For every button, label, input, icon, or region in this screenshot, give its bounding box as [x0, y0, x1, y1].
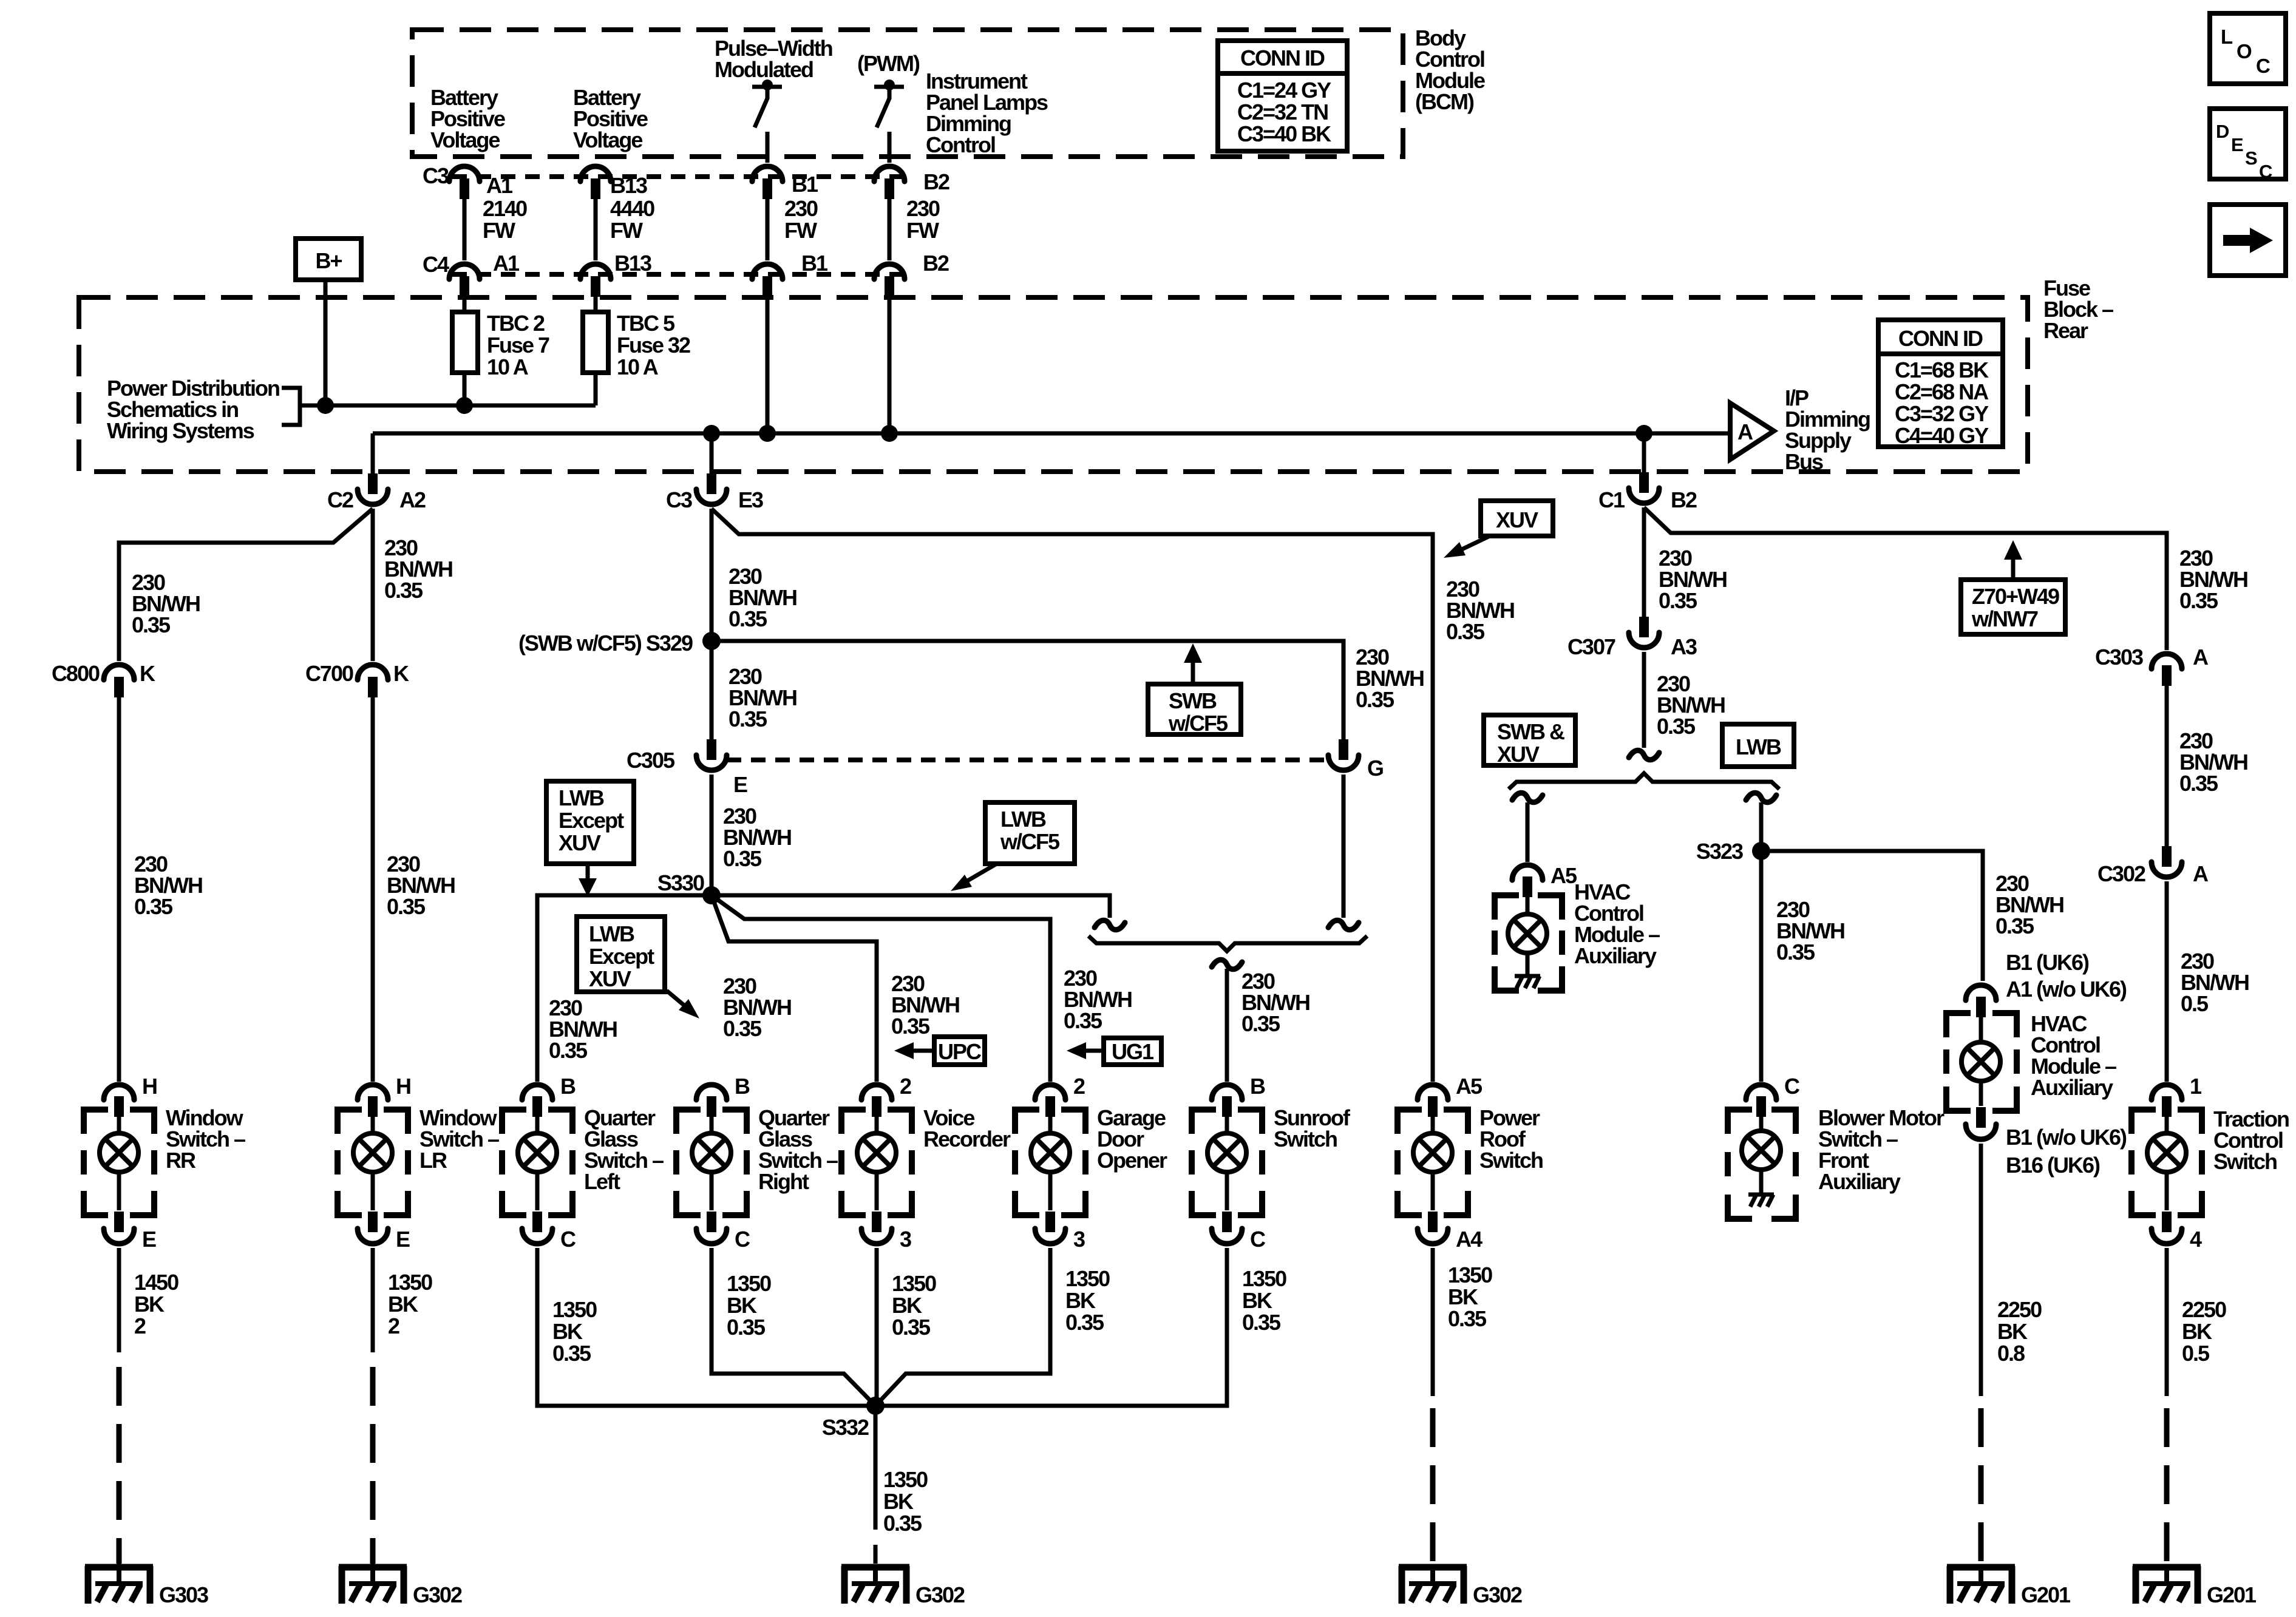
connector A4 (power roof switch) [1418, 1212, 1448, 1244]
svg-text:TBC 5: TBC 5 [617, 311, 675, 336]
junction dot S330 [702, 886, 721, 904]
svg-text:BK: BK [2182, 1319, 2212, 1344]
connector C800/K [104, 665, 134, 697]
dashed wire segment to G302 center [874, 1545, 878, 1564]
wire sunroof down to bottom rail [875, 1248, 1227, 1406]
connector G [1328, 739, 1359, 770]
connector C3/E3 [696, 473, 727, 504]
garage door opener box [1015, 1110, 1085, 1215]
svg-text:A5: A5 [1550, 863, 1577, 888]
svg-text:CONN ID: CONN ID [1898, 326, 1983, 351]
connector C305/E [696, 739, 727, 770]
svg-text:4: 4 [2190, 1227, 2202, 1252]
wire G down to sunroof merge [1342, 775, 1346, 918]
svg-text:0.35: 0.35 [729, 606, 767, 631]
wire B13 [594, 198, 598, 260]
svg-text:S323: S323 [1696, 839, 1743, 864]
svg-text:Wiring Systems: Wiring Systems [107, 418, 254, 443]
dashed wire HVAC right to ground [1978, 1408, 1984, 1564]
connector H (window switch RR) [104, 1085, 134, 1117]
svg-text:SWB &: SWB & [1497, 719, 1564, 744]
wire S330 to garage door opener [712, 895, 1050, 1082]
svg-text:0.35: 0.35 [1064, 1008, 1102, 1033]
junction dot TBC2 [456, 397, 473, 414]
svg-text:Left: Left [584, 1169, 620, 1194]
UPC box with arrow [894, 1037, 985, 1065]
svg-text:Voltage: Voltage [573, 127, 642, 152]
svg-text:LR: LR [419, 1148, 447, 1173]
svg-text:(PWM): (PWM) [857, 51, 920, 76]
svg-text:B: B [735, 1074, 750, 1099]
svg-text:K: K [140, 661, 155, 686]
svg-text:BK: BK [388, 1292, 418, 1317]
svg-text:B1 (w/o UK6): B1 (w/o UK6) [2006, 1125, 2127, 1150]
svg-text:A1 (w/o UK6): A1 (w/o UK6) [2006, 977, 2127, 1002]
svg-text:H: H [142, 1074, 157, 1099]
arrow up from Z70 box [2004, 540, 2022, 580]
svg-text:C800: C800 [52, 661, 100, 686]
wire C2 down to C700 [371, 509, 375, 661]
svg-text:0.35: 0.35 [723, 846, 762, 871]
svg-text:C: C [2259, 161, 2272, 182]
arrow from XUV box to wire corner [1444, 537, 1489, 558]
svg-text:0.35: 0.35 [1446, 619, 1485, 644]
svg-text:w/CF5: w/CF5 [1000, 829, 1060, 854]
XUV option box [1481, 501, 1553, 536]
Z70+W49 w/NW7 option box [1961, 580, 2065, 634]
svg-text:Recorder: Recorder [923, 1127, 1011, 1151]
quarter glass switch right box [676, 1110, 747, 1215]
svg-text:C3=32 GY: C3=32 GY [1895, 401, 1989, 426]
svg-text:SWB: SWB [1169, 688, 1217, 713]
lamp window switch LR [353, 1117, 392, 1210]
lamp traction control switch [2147, 1117, 2186, 1210]
svg-text:C: C [1250, 1227, 1266, 1252]
wire B2 down to bus [888, 295, 892, 433]
ground G302 (left) [339, 1551, 407, 1604]
wire B1 down to bus [766, 295, 770, 433]
svg-text:D: D [2216, 121, 2229, 142]
lamp quarter glass right [692, 1117, 731, 1210]
connector B1(w/o UK6)/B16(UK6) HVAC right bottom [1966, 1107, 1996, 1139]
ground G201 (HVAC right) [1947, 1566, 2015, 1604]
lamp sunroof switch [1207, 1117, 1246, 1210]
fuse TBC2 [452, 297, 478, 405]
window switch LR box [338, 1110, 408, 1215]
connector B (sunroof switch) [1212, 1085, 1242, 1117]
svg-text:C302: C302 [2097, 861, 2145, 886]
ground G302 (center) [841, 1566, 909, 1604]
svg-text:C303: C303 [2095, 645, 2143, 670]
wire diagonal C3/E3 to PRS feed [712, 509, 1433, 1082]
svg-text:E: E [142, 1227, 156, 1252]
svg-text:C307: C307 [1567, 634, 1615, 659]
wire GDO down to S332 [875, 1248, 1050, 1406]
svg-text:CONN ID: CONN ID [1240, 46, 1325, 70]
arrow from LWB w/CF5 box to S330 line [951, 864, 996, 891]
connector E (window switch RR) [104, 1212, 134, 1244]
connector C3/B13 [580, 166, 611, 199]
wire B+ down [324, 278, 328, 405]
connector C3/A1 [449, 166, 480, 199]
DESC box [2210, 109, 2286, 182]
LWB Except XUV option box (upper) [546, 781, 634, 864]
svg-text:w/NW7: w/NW7 [1971, 606, 2038, 631]
svg-text:10 A: 10 A [487, 354, 529, 379]
svg-text:0.35: 0.35 [1776, 940, 1815, 964]
svg-text:B2: B2 [1671, 487, 1697, 512]
wire C800 down [117, 697, 121, 1082]
lamp HVAC aux right [1961, 1017, 2000, 1106]
svg-text:XUV: XUV [1496, 507, 1538, 532]
svg-text:A2: A2 [399, 487, 426, 512]
svg-text:0.35: 0.35 [892, 1315, 931, 1340]
svg-text:O: O [2237, 40, 2252, 63]
wire HVAC right down [1979, 1144, 1983, 1396]
svg-text:BK: BK [883, 1489, 914, 1514]
svg-text:C3: C3 [423, 163, 449, 188]
junction dot S323 [1752, 842, 1770, 860]
svg-text:0.35: 0.35 [134, 894, 173, 919]
svg-text:2140: 2140 [483, 196, 527, 221]
wire B1 [766, 198, 770, 260]
svg-text:G302: G302 [413, 1582, 462, 1607]
svg-text:E: E [2231, 134, 2243, 155]
svg-text:3: 3 [900, 1227, 911, 1252]
svg-text:Except: Except [589, 944, 654, 969]
svg-text:C1: C1 [1598, 487, 1625, 512]
window switch RR box [84, 1110, 154, 1215]
svg-text:C2: C2 [327, 487, 353, 512]
bus corner down to C2 [371, 433, 375, 475]
svg-text:BK: BK [727, 1293, 757, 1318]
wire diagonal C1/B2 to far right column [1644, 507, 2167, 650]
svg-text:Fuse 7: Fuse 7 [487, 333, 549, 358]
lamp garage door opener [1031, 1117, 1070, 1210]
HVAC control module auxiliary box (left) [1495, 895, 1562, 991]
svg-text:10 A: 10 A [617, 354, 659, 379]
wire C307 down to split [1642, 652, 1646, 748]
svg-text:S: S [2245, 147, 2257, 169]
power roof switch box [1398, 1110, 1468, 1215]
connector C700/K [358, 665, 388, 697]
svg-text:0.35: 0.35 [387, 894, 426, 919]
svg-text:1350: 1350 [552, 1297, 597, 1322]
svg-text:0.35: 0.35 [1065, 1310, 1104, 1335]
svg-text:BK: BK [1448, 1284, 1478, 1309]
wire C3/E3 down to S329 [710, 509, 714, 641]
svg-text:H: H [396, 1074, 410, 1099]
SWB w/CF5 option box [1148, 684, 1241, 736]
lamp blower motor [1742, 1117, 1781, 1170]
svg-text:C: C [2256, 55, 2270, 77]
svg-text:1350: 1350 [727, 1271, 771, 1296]
svg-text:C2=68 NA: C2=68 NA [1895, 379, 1989, 404]
arrow box [2210, 205, 2286, 276]
wire S330 to voice recorder [712, 895, 877, 1082]
svg-text:0.35: 0.35 [727, 1315, 766, 1340]
junction dot C1B2 tap [1635, 425, 1652, 442]
svg-text:C305: C305 [627, 748, 675, 773]
svg-text:Voltage: Voltage [430, 127, 500, 152]
triangle A: I/P Dimming Supply Bus [1730, 403, 1774, 459]
svg-text:2: 2 [388, 1314, 399, 1338]
wire S329 right to G branch [712, 641, 1343, 740]
svg-text:L: L [2221, 25, 2233, 48]
svg-text:Switch: Switch [1274, 1127, 1337, 1151]
LWB option box [1722, 724, 1794, 767]
wire below RR [117, 1248, 121, 1352]
merge bracket (LWB w/CF5 + SWB w/CF5 options) [1089, 936, 1367, 951]
wire tap down to C1/B2 [1642, 433, 1646, 473]
svg-text:0.35: 0.35 [1657, 714, 1696, 739]
svg-text:Switch: Switch [2213, 1149, 2277, 1174]
svg-text:B13: B13 [614, 251, 651, 276]
wire C303 down to C302 [2165, 686, 2169, 856]
junction dot C3E3 tap [703, 425, 720, 442]
connector 2 (garage door opener) [1035, 1085, 1065, 1117]
svg-text:S332: S332 [822, 1415, 869, 1440]
svg-text:C: C [735, 1227, 750, 1252]
svg-text:BK: BK [552, 1319, 583, 1344]
wire S323 down to blower [1759, 851, 1764, 1082]
svg-text:BK: BK [1242, 1288, 1272, 1313]
svg-text:0.35: 0.35 [891, 1014, 930, 1039]
svg-text:C4=40 GY: C4=40 GY [1895, 423, 1989, 448]
SWB & XUV option box [1484, 715, 1575, 767]
svg-text:(BCM): (BCM) [1415, 89, 1474, 114]
dashed wire to G303 [117, 1367, 122, 1564]
connector B (quarter glass right) [696, 1085, 727, 1117]
wire QGR down to S332 [712, 1248, 875, 1406]
LOC box [2210, 13, 2286, 84]
svg-text:0.35: 0.35 [1356, 687, 1394, 712]
svg-text:B2: B2 [923, 169, 949, 194]
lamp voice recorder [857, 1117, 896, 1210]
svg-text:A3: A3 [1671, 634, 1697, 659]
svg-text:Auxiliary: Auxiliary [2031, 1075, 2113, 1100]
svg-text:Auxiliary: Auxiliary [1574, 943, 1657, 968]
svg-text:B: B [560, 1074, 576, 1099]
blower motor switch box [1728, 1110, 1796, 1219]
svg-text:0.35: 0.35 [552, 1341, 591, 1366]
arrow down from LWB Except XUV upper box [579, 864, 597, 897]
svg-text:2: 2 [1073, 1074, 1085, 1099]
svg-text:S330: S330 [657, 870, 704, 895]
svg-text:2250: 2250 [1997, 1297, 2042, 1322]
wire S332 down [874, 1406, 878, 1530]
svg-text:B1 (UK6): B1 (UK6) [2006, 950, 2089, 975]
svg-text:BK: BK [1065, 1288, 1096, 1313]
connector C1/B2 [1629, 472, 1659, 503]
svg-text:0.35: 0.35 [2179, 588, 2218, 613]
LWB w/CF5 option box [985, 802, 1075, 864]
svg-text:Bus: Bus [1785, 449, 1823, 474]
svg-text:0.5: 0.5 [2181, 991, 2209, 1016]
PWM switch symbol B2 [874, 80, 904, 163]
sunroof switch box [1192, 1110, 1262, 1215]
svg-text:Rear: Rear [2043, 318, 2088, 343]
wire PRS down [1431, 1248, 1435, 1396]
dashed wire TCS to ground [2164, 1408, 2170, 1564]
wire B2 [888, 198, 892, 260]
wire S330 left branch to quarter glass left [537, 895, 712, 1082]
svg-text:1450: 1450 [134, 1270, 178, 1295]
svg-text:B16 (UK6): B16 (UK6) [2006, 1153, 2100, 1178]
svg-text:B13: B13 [610, 173, 647, 198]
svg-text:1: 1 [2190, 1074, 2202, 1099]
svg-text:4440: 4440 [610, 196, 654, 221]
wire VR down to S332 [875, 1248, 879, 1406]
HVAC control module auxiliary box (right) [1946, 1013, 2017, 1111]
lamp HVAC aux left [1508, 897, 1547, 953]
svg-text:1350: 1350 [1242, 1266, 1286, 1291]
svg-text:1350: 1350 [388, 1270, 432, 1295]
C3 connector row dashed line [452, 174, 911, 179]
lamp quarter glass left [518, 1117, 557, 1210]
wire tap down to C3/E3 [710, 433, 714, 475]
svg-text:FW: FW [906, 218, 939, 243]
wire C1/B2 down to C307 [1642, 507, 1646, 617]
svg-text:LWB: LWB [1736, 734, 1781, 759]
svg-text:230: 230 [906, 196, 940, 221]
ground G303 [85, 1551, 153, 1604]
ground G302 (PRS) [1399, 1566, 1467, 1604]
Fuse Block - Rear dashed box [79, 297, 2028, 472]
svg-text:FW: FW [784, 218, 817, 243]
svg-text:C3=40 BK: C3=40 BK [1237, 121, 1331, 146]
svg-text:Fuse 32: Fuse 32 [617, 333, 690, 358]
BCM CONN ID table box [1218, 41, 1347, 151]
wire S329 down to C305 [710, 641, 714, 740]
svg-text:FW: FW [483, 218, 515, 243]
dashed wire to G302 [370, 1367, 376, 1564]
dashed connector line C305 to G [727, 758, 1328, 762]
tilde end G feeder [1328, 920, 1359, 930]
wire S323 right to HVAC aux right [1761, 851, 1983, 981]
svg-text:0.35: 0.35 [1448, 1306, 1487, 1331]
connector C2/A2 [358, 473, 388, 504]
svg-text:1350: 1350 [1065, 1266, 1110, 1291]
svg-text:XUV: XUV [1497, 742, 1540, 767]
svg-text:Switch: Switch [1479, 1148, 1543, 1173]
svg-text:A5: A5 [1456, 1074, 1483, 1099]
svg-text:B1: B1 [792, 172, 818, 197]
connector C303/A [2152, 654, 2182, 686]
connector 2 (voice recorder) [861, 1085, 892, 1117]
wire merge to sunroof [1225, 969, 1229, 1082]
svg-text:G: G [1367, 756, 1383, 781]
svg-text:2: 2 [900, 1074, 911, 1099]
B+ box [296, 239, 361, 280]
svg-text:UPC: UPC [938, 1039, 982, 1064]
tilde below merge bracket [1212, 960, 1242, 969]
connector C (quarter glass right) [696, 1212, 727, 1244]
connector C4/B1 [752, 264, 783, 297]
connector C307/A3 [1629, 617, 1659, 648]
connector C (sunroof switch) [1212, 1212, 1242, 1244]
C4 connector row dashed line [452, 272, 911, 277]
connector 3 (voice recorder) [861, 1212, 892, 1244]
connector C3/B2 [874, 166, 905, 199]
tilde top of A5 branch [1512, 793, 1543, 802]
connector C302/A [2152, 846, 2182, 877]
svg-text:A: A [1737, 419, 1753, 444]
connector A5 (power roof switch) [1418, 1085, 1448, 1117]
svg-text:LWB: LWB [589, 921, 634, 946]
internal ground blower [1748, 1170, 1774, 1207]
lamp power roof switch [1413, 1117, 1452, 1210]
svg-text:RR: RR [166, 1148, 196, 1173]
connector C (quarter glass left) [522, 1212, 552, 1244]
svg-text:3: 3 [1073, 1227, 1085, 1252]
svg-text:BK: BK [1997, 1319, 2028, 1344]
connector C (blower motor switch) [1746, 1085, 1776, 1117]
connector C3/B1 [752, 166, 783, 199]
connector 4 (traction control switch) [2152, 1212, 2182, 1244]
svg-text:A4: A4 [1456, 1227, 1483, 1252]
svg-text:B1: B1 [801, 251, 828, 276]
connector E (window switch LR) [358, 1212, 388, 1244]
svg-text:A1: A1 [486, 173, 513, 198]
wire C305 down to S330 [710, 775, 714, 895]
svg-text:0.5: 0.5 [2182, 1341, 2210, 1366]
connector 1 (traction control switch) [2152, 1085, 2182, 1117]
svg-text:BK: BK [892, 1293, 922, 1318]
connector C4/A1 [449, 264, 480, 297]
junction dot B2/bus [881, 425, 898, 442]
svg-text:w/CF5: w/CF5 [1168, 711, 1228, 736]
wire C700 down [371, 697, 375, 1082]
junction dot S332 [866, 1397, 885, 1415]
svg-text:K: K [393, 661, 409, 686]
connector C4/B2 [874, 264, 905, 297]
svg-text:Auxiliary: Auxiliary [1818, 1169, 1901, 1194]
svg-text:C4: C4 [423, 252, 449, 277]
svg-text:LWB: LWB [1000, 807, 1046, 832]
svg-text:E3: E3 [738, 487, 763, 512]
svg-text:0.35: 0.35 [723, 1016, 762, 1041]
svg-text:1350: 1350 [1448, 1263, 1492, 1287]
svg-text:Opener: Opener [1097, 1148, 1167, 1173]
svg-text:0.35: 0.35 [132, 612, 171, 637]
svg-text:C: C [1784, 1074, 1800, 1099]
svg-text:Control: Control [926, 132, 995, 157]
power distribution bus wire [300, 404, 596, 408]
svg-text:B2: B2 [923, 251, 949, 276]
connector C4/B13 [580, 264, 611, 297]
svg-text:0.35: 0.35 [549, 1038, 588, 1063]
svg-text:0.35: 0.35 [384, 578, 423, 603]
svg-text:BK: BK [134, 1292, 165, 1317]
lamp window switch RR [100, 1117, 138, 1210]
wire QGL down to bottom rail [537, 1248, 875, 1406]
svg-text:0.35: 0.35 [1242, 1310, 1281, 1335]
svg-text:0.35: 0.35 [1995, 914, 2034, 938]
svg-text:B+: B+ [315, 248, 342, 273]
svg-text:B: B [1250, 1074, 1265, 1099]
svg-text:UG1: UG1 [1112, 1039, 1154, 1064]
connector B1(UK6)/A1(w/o UK6) HVAC right top [1966, 985, 1996, 1017]
connector 3 (garage door opener) [1035, 1212, 1065, 1244]
svg-text:(SWB w/CF5) S329: (SWB w/CF5) S329 [518, 631, 693, 656]
svg-text:Except: Except [559, 808, 624, 833]
LWB Except XUV option box (lower) [577, 917, 665, 992]
connector H (window switch LR) [358, 1085, 388, 1117]
svg-text:TBC 2: TBC 2 [487, 311, 545, 336]
voice recorder box [841, 1110, 912, 1215]
svg-text:2250: 2250 [2182, 1297, 2226, 1322]
